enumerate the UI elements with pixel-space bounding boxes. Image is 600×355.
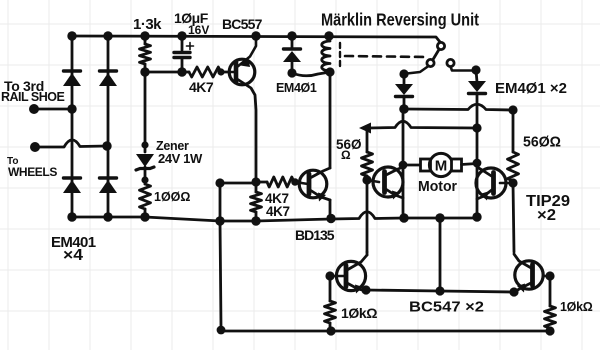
svg-text:WHEELS: WHEELS [8,165,57,179]
svg-text:BC557: BC557 [222,16,263,32]
svg-text:RAIL SHOE: RAIL SHOE [1,90,64,104]
svg-text:BC547 ×2: BC547 ×2 [409,299,484,316]
svg-text:M: M [435,158,448,175]
svg-text:1·3k: 1·3k [133,16,162,33]
svg-text:4K7: 4K7 [189,79,214,95]
svg-text:Märklin Reversing Unit: Märklin Reversing Unit [321,10,479,30]
svg-text:56ØΩ: 56ØΩ [523,134,561,151]
svg-text:1ØkΩ: 1ØkΩ [560,300,593,314]
svg-text:4K7: 4K7 [266,204,290,219]
svg-text:1ØØΩ: 1ØØΩ [154,190,190,204]
svg-text:16V: 16V [188,23,209,37]
svg-text:×2: ×2 [537,207,556,224]
svg-text:EM4Ø1: EM4Ø1 [276,81,317,95]
svg-text:EM4Ø1 ×2: EM4Ø1 ×2 [495,81,567,97]
svg-text:×4: ×4 [63,247,83,264]
svg-text:Ω: Ω [341,148,351,162]
svg-text:BD135: BD135 [295,227,335,243]
svg-text:1ØkΩ: 1ØkΩ [341,305,377,321]
svg-text:Motor: Motor [418,179,457,195]
svg-text:24V 1W: 24V 1W [158,151,203,166]
